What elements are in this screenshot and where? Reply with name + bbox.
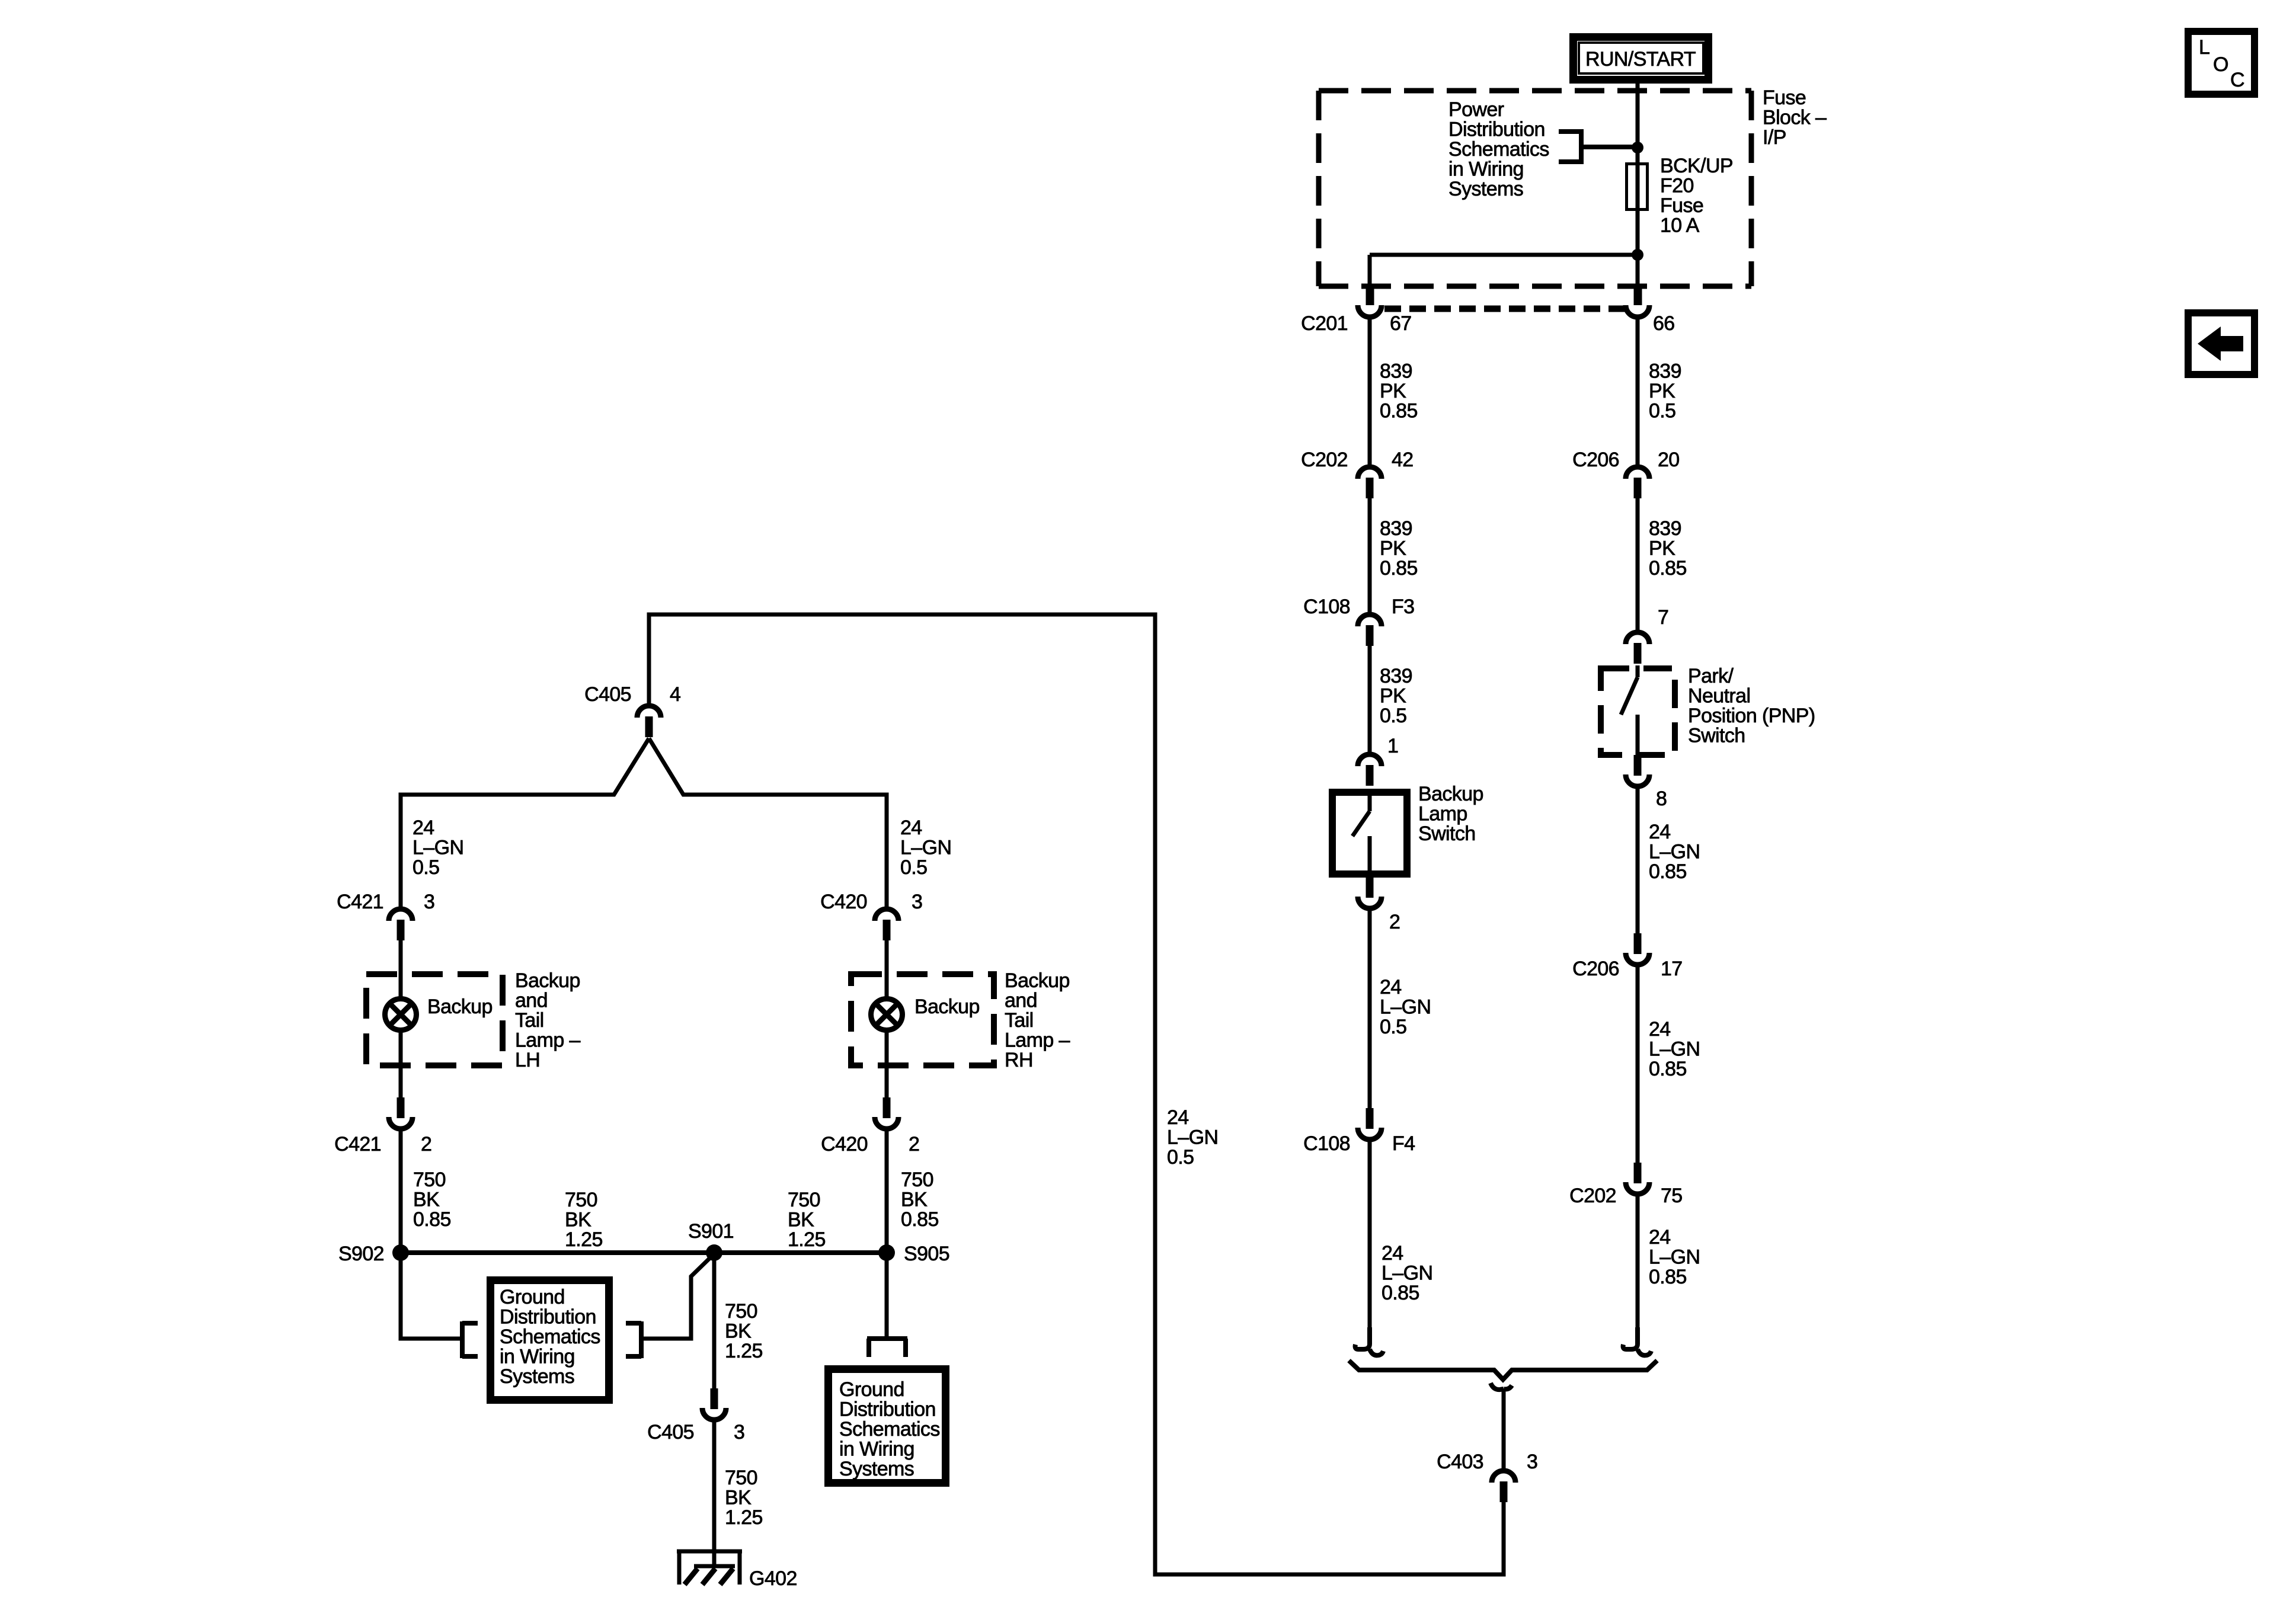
- svg-text:S902: S902: [338, 1243, 384, 1265]
- svg-text:67: 67: [1390, 312, 1412, 335]
- svg-text:C405: C405: [584, 683, 631, 706]
- svg-text:750: 750: [725, 1467, 757, 1489]
- svg-text:Neutral: Neutral: [1688, 685, 1750, 708]
- svg-text:L–GN: L–GN: [1649, 1038, 1700, 1061]
- svg-text:BK: BK: [725, 1487, 752, 1509]
- svg-text:Fuse: Fuse: [1763, 87, 1806, 109]
- svg-text:L–GN: L–GN: [1167, 1126, 1218, 1149]
- svg-text:3: 3: [1527, 1451, 1537, 1473]
- svg-text:Backup: Backup: [914, 996, 980, 1018]
- svg-text:S905: S905: [904, 1243, 949, 1265]
- svg-text:1.25: 1.25: [725, 1506, 763, 1529]
- svg-text:0.85: 0.85: [413, 1208, 451, 1231]
- svg-text:O: O: [2213, 53, 2228, 76]
- svg-text:2: 2: [1389, 911, 1400, 933]
- svg-text:3: 3: [424, 891, 434, 913]
- svg-text:C421: C421: [337, 891, 383, 913]
- svg-text:0.5: 0.5: [1380, 705, 1406, 727]
- svg-text:0.85: 0.85: [1649, 1058, 1687, 1080]
- svg-text:Lamp –: Lamp –: [515, 1029, 580, 1052]
- svg-text:Distribution: Distribution: [500, 1306, 596, 1329]
- svg-text:Tail: Tail: [1005, 1009, 1034, 1032]
- svg-text:PK: PK: [1380, 537, 1406, 560]
- svg-text:1.25: 1.25: [565, 1228, 603, 1251]
- svg-text:Lamp: Lamp: [1418, 803, 1467, 825]
- svg-text:in Wiring: in Wiring: [1448, 158, 1524, 181]
- svg-text:Backup: Backup: [1418, 783, 1483, 805]
- svg-text:L–GN: L–GN: [1382, 1262, 1432, 1285]
- svg-text:Ground: Ground: [500, 1286, 565, 1308]
- svg-text:24: 24: [1649, 1226, 1671, 1249]
- svg-text:Switch: Switch: [1688, 725, 1745, 747]
- svg-text:75: 75: [1661, 1185, 1683, 1207]
- svg-text:C202: C202: [1301, 449, 1348, 471]
- svg-text:Schematics: Schematics: [839, 1418, 940, 1441]
- svg-text:C405: C405: [647, 1421, 694, 1443]
- svg-text:BCK/UP: BCK/UP: [1660, 155, 1733, 177]
- svg-text:3: 3: [912, 891, 922, 913]
- svg-text:BK: BK: [901, 1189, 928, 1211]
- svg-text:C206: C206: [1572, 449, 1619, 471]
- svg-text:C202: C202: [1569, 1185, 1616, 1207]
- svg-text:2: 2: [421, 1133, 431, 1156]
- svg-text:0.5: 0.5: [1167, 1146, 1194, 1169]
- svg-text:Block –: Block –: [1763, 107, 1827, 129]
- svg-text:Distribution: Distribution: [1448, 119, 1545, 141]
- svg-text:8: 8: [1656, 788, 1667, 810]
- svg-text:BK: BK: [788, 1209, 814, 1231]
- svg-text:839: 839: [1380, 360, 1412, 383]
- svg-text:in Wiring: in Wiring: [500, 1346, 575, 1368]
- svg-text:and: and: [1005, 990, 1037, 1012]
- svg-text:20: 20: [1658, 449, 1680, 471]
- svg-text:0.85: 0.85: [1382, 1282, 1419, 1304]
- svg-text:Backup: Backup: [427, 996, 493, 1018]
- svg-text:S901: S901: [688, 1220, 734, 1243]
- svg-text:L–GN: L–GN: [412, 837, 463, 859]
- svg-text:0.85: 0.85: [1649, 557, 1687, 580]
- svg-text:in Wiring: in Wiring: [839, 1438, 914, 1461]
- svg-text:Distribution: Distribution: [839, 1398, 936, 1421]
- svg-text:PK: PK: [1380, 380, 1406, 402]
- svg-text:839: 839: [1380, 665, 1412, 687]
- svg-text:0.85: 0.85: [1649, 1266, 1687, 1288]
- svg-text:17: 17: [1661, 958, 1683, 980]
- svg-text:C108: C108: [1303, 596, 1350, 618]
- svg-text:Fuse: Fuse: [1660, 194, 1703, 217]
- svg-text:7: 7: [1658, 606, 1668, 629]
- svg-text:750: 750: [565, 1189, 597, 1211]
- svg-text:Lamp –: Lamp –: [1005, 1029, 1070, 1052]
- svg-text:24: 24: [900, 817, 922, 839]
- svg-text:L–GN: L–GN: [1649, 841, 1700, 863]
- svg-text:C108: C108: [1303, 1132, 1350, 1155]
- svg-text:Schematics: Schematics: [500, 1326, 600, 1348]
- svg-text:66: 66: [1653, 312, 1675, 335]
- svg-text:24: 24: [1382, 1242, 1403, 1265]
- svg-text:Position (PNP): Position (PNP): [1688, 705, 1815, 727]
- svg-text:LH: LH: [515, 1049, 540, 1071]
- svg-text:24: 24: [1167, 1106, 1189, 1129]
- svg-text:0.85: 0.85: [1380, 557, 1418, 580]
- svg-text:750: 750: [788, 1189, 820, 1211]
- svg-text:3: 3: [734, 1421, 744, 1443]
- svg-text:Switch: Switch: [1418, 822, 1476, 845]
- svg-text:2: 2: [909, 1133, 919, 1156]
- svg-text:Backup: Backup: [1005, 969, 1070, 992]
- svg-text:L–GN: L–GN: [900, 837, 951, 859]
- svg-text:Systems: Systems: [500, 1365, 574, 1388]
- svg-text:0.5: 0.5: [1649, 400, 1675, 422]
- svg-text:1.25: 1.25: [788, 1228, 826, 1251]
- svg-text:Park/: Park/: [1688, 665, 1734, 687]
- svg-text:0.5: 0.5: [900, 856, 927, 879]
- svg-text:839: 839: [1649, 517, 1681, 540]
- svg-text:PK: PK: [1649, 537, 1675, 560]
- svg-text:750: 750: [725, 1300, 757, 1323]
- svg-text:Power: Power: [1448, 98, 1504, 121]
- svg-text:839: 839: [1380, 517, 1412, 540]
- svg-text:L–GN: L–GN: [1649, 1246, 1700, 1269]
- svg-text:839: 839: [1649, 360, 1681, 383]
- svg-text:C420: C420: [821, 1133, 868, 1156]
- svg-text:I/P: I/P: [1763, 126, 1786, 149]
- svg-text:Systems: Systems: [839, 1458, 914, 1480]
- svg-text:G402: G402: [749, 1567, 797, 1590]
- svg-text:10 A: 10 A: [1660, 215, 1700, 237]
- svg-text:750: 750: [901, 1169, 933, 1191]
- svg-text:Tail: Tail: [515, 1009, 544, 1032]
- svg-text:C421: C421: [334, 1133, 381, 1156]
- svg-text:24: 24: [1649, 821, 1671, 843]
- svg-text:0.85: 0.85: [1380, 400, 1418, 422]
- svg-text:42: 42: [1392, 449, 1414, 471]
- svg-text:BK: BK: [565, 1209, 591, 1231]
- svg-text:F3: F3: [1392, 596, 1414, 618]
- svg-text:PK: PK: [1380, 685, 1406, 708]
- svg-text:Ground: Ground: [839, 1378, 904, 1401]
- svg-text:Backup: Backup: [515, 969, 580, 992]
- svg-text:L–GN: L–GN: [1380, 996, 1431, 1019]
- svg-text:Schematics: Schematics: [1448, 138, 1549, 161]
- svg-text:C420: C420: [820, 891, 867, 913]
- svg-text:0.5: 0.5: [412, 856, 439, 879]
- svg-text:PK: PK: [1649, 380, 1675, 402]
- svg-text:F4: F4: [1392, 1132, 1415, 1155]
- svg-text:0.85: 0.85: [901, 1208, 939, 1231]
- svg-text:24: 24: [412, 817, 434, 839]
- svg-text:1: 1: [1387, 735, 1398, 757]
- svg-text:BK: BK: [413, 1189, 440, 1211]
- svg-text:C201: C201: [1301, 312, 1348, 335]
- svg-text:1.25: 1.25: [725, 1340, 763, 1362]
- svg-text:4: 4: [670, 683, 680, 706]
- svg-text:24: 24: [1380, 976, 1402, 998]
- svg-text:C206: C206: [1572, 958, 1619, 980]
- svg-text:Systems: Systems: [1448, 178, 1523, 200]
- svg-text:and: and: [515, 990, 548, 1012]
- svg-text:L: L: [2199, 36, 2209, 59]
- svg-text:C: C: [2230, 69, 2244, 91]
- svg-text:750: 750: [413, 1169, 446, 1191]
- svg-text:24: 24: [1649, 1018, 1671, 1041]
- svg-text:BK: BK: [725, 1320, 752, 1343]
- svg-text:0.5: 0.5: [1380, 1016, 1406, 1038]
- svg-text:C403: C403: [1437, 1451, 1483, 1473]
- svg-text:RUN/START: RUN/START: [1585, 48, 1696, 71]
- svg-text:RH: RH: [1005, 1049, 1033, 1071]
- svg-text:F20: F20: [1660, 175, 1694, 197]
- svg-text:0.85: 0.85: [1649, 860, 1687, 883]
